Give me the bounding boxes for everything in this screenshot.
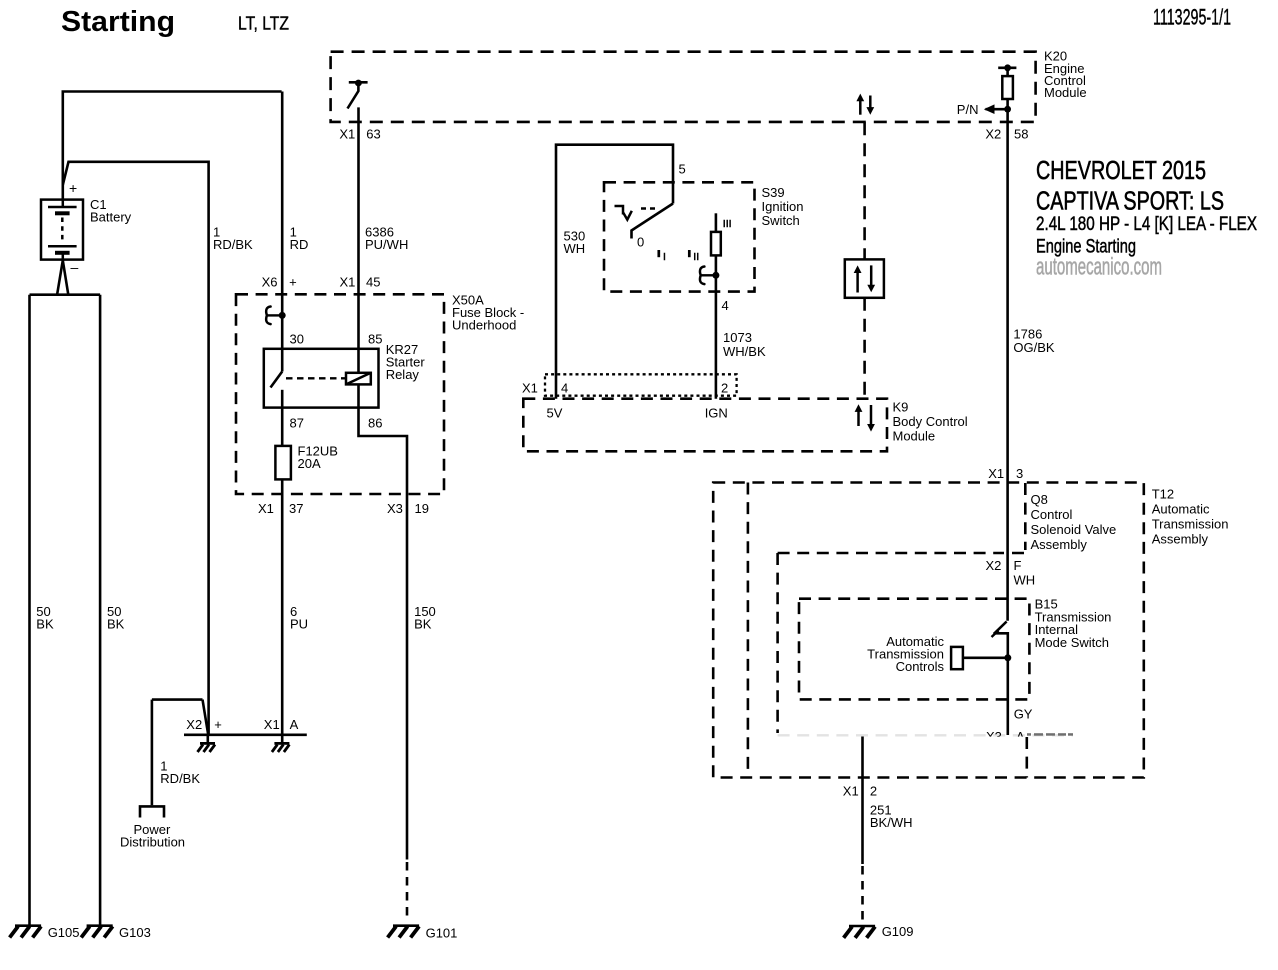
- wire 1 RD/BK branch to power distribution: [152, 698, 203, 701]
- wire ground bus bar: [30, 293, 101, 296]
- svg-text:Battery: Battery: [90, 210, 132, 225]
- white patch over erased area: [940, 737, 1105, 774]
- svg-text:P/N: P/N: [957, 102, 979, 117]
- ground G109: [844, 926, 876, 938]
- wire X2/X1 ground bar: [184, 733, 307, 736]
- wire mode switch jog to node: [994, 633, 1008, 735]
- svg-text:Mode Switch: Mode Switch: [1035, 635, 1109, 650]
- svg-text:G105: G105: [48, 925, 80, 940]
- K20 internal switch bar: [349, 81, 368, 84]
- svg-text:K9: K9: [893, 400, 909, 415]
- wire 6386 PU/WH K20 X1-63 to relay coil: [357, 107, 360, 372]
- svg-text:automecanico.com: automecanico.com: [1036, 253, 1162, 280]
- ground G103: [81, 926, 113, 938]
- svg-text:1073: 1073: [723, 330, 752, 345]
- svg-text:Assembly: Assembly: [1152, 532, 1209, 547]
- svg-text:X2: X2: [986, 558, 1002, 573]
- wire ATC to node: [963, 656, 1005, 659]
- svg-text:–: –: [71, 259, 79, 275]
- chassis ground at X1 A: [272, 735, 290, 752]
- wire ignition resistor top stub: [715, 213, 718, 232]
- ignition position tick I: [657, 250, 660, 257]
- svg-text:Underhood: Underhood: [452, 318, 516, 333]
- svg-text:1113295-1/1: 1113295-1/1: [1153, 5, 1231, 30]
- ground G105: [10, 926, 41, 938]
- svg-text:Relay: Relay: [386, 367, 420, 382]
- T12 Automatic Transmission Assembly box: [713, 483, 1144, 778]
- ignition position tick II: [688, 250, 691, 257]
- svg-text:X1: X1: [843, 784, 859, 799]
- P/N arrowhead: [984, 104, 995, 114]
- wire power distribution drop: [151, 700, 154, 806]
- relay KR27 coil symbol: [346, 373, 371, 385]
- svg-text:WH/BK: WH/BK: [723, 344, 766, 359]
- svg-text:G101: G101: [426, 926, 458, 941]
- svg-text:+: +: [289, 275, 297, 290]
- svg-text:G109: G109: [882, 924, 914, 939]
- svg-text:RD/BK: RD/BK: [213, 237, 253, 252]
- serial data arrows in K20: [856, 94, 874, 115]
- svg-text:RD/BK: RD/BK: [160, 771, 200, 786]
- ground G101: [388, 926, 420, 938]
- svg-text:CHEVROLET 2015: CHEVROLET 2015: [1036, 155, 1206, 185]
- svg-text:BK: BK: [107, 617, 125, 632]
- svg-text:+: +: [69, 180, 77, 196]
- P/N arrow line: [986, 108, 1008, 111]
- svg-text:Solenoid Valve: Solenoid Valve: [1031, 522, 1117, 537]
- svg-text:F: F: [1014, 558, 1022, 573]
- mode switch blade tick: [992, 631, 999, 638]
- svg-text:A: A: [290, 717, 299, 732]
- svg-text:II: II: [693, 251, 699, 263]
- svg-text:3: 3: [1016, 466, 1023, 481]
- svg-text:2.4L 180 HP - L4 [K] LEA - F: 2.4L 180 HP - L4 [K] LEA - FLEX: [1036, 213, 1257, 235]
- svg-text:T12: T12: [1152, 487, 1174, 502]
- svg-text:Starting: Starting: [61, 6, 175, 38]
- svg-text:19: 19: [415, 501, 429, 516]
- svg-text:2: 2: [721, 381, 728, 396]
- svg-text:30: 30: [290, 332, 304, 347]
- svg-text:X1: X1: [340, 275, 356, 290]
- K20 resistor top bar: [998, 67, 1016, 70]
- wire 50 BK to G103: [99, 295, 102, 925]
- wire 150 BK relay 86 to G101: [359, 384, 408, 859]
- wire battery negative V left leg: [57, 260, 63, 294]
- svg-text:III: III: [723, 218, 732, 230]
- svg-text:Automatic: Automatic: [1152, 502, 1210, 517]
- svg-text:Body Control: Body Control: [893, 414, 968, 429]
- svg-text:Distribution: Distribution: [120, 835, 185, 850]
- svg-text:+: +: [214, 717, 222, 732]
- K20 internal switch stub and blade: [348, 84, 359, 109]
- wire 150 BK dashed section: [406, 862, 409, 921]
- wire serial data arrows box to K9 (dashed): [863, 298, 866, 399]
- svg-text:Controls: Controls: [896, 659, 945, 674]
- Q8 assembly left edge: [747, 483, 750, 778]
- svg-text:X1: X1: [522, 381, 538, 396]
- serial data gateway box with arrows: [845, 259, 884, 297]
- svg-text:Ignition: Ignition: [762, 199, 804, 214]
- relay KR27 switch blade: [271, 372, 283, 388]
- svg-text:BK: BK: [414, 617, 432, 632]
- S39 rest contact symbol: [615, 206, 632, 220]
- relay KR27 actuation dashed link: [286, 377, 345, 379]
- connector hook at X6 fuse block: [266, 307, 270, 325]
- svg-text:Module: Module: [893, 429, 936, 444]
- svg-text:X1: X1: [339, 127, 355, 142]
- svg-text:WH: WH: [1014, 573, 1036, 588]
- B15 outer box left edge: [776, 553, 779, 733]
- svg-text:S39: S39: [762, 185, 785, 200]
- wire 1 RD/BK diagonal into X2 pin: [203, 700, 209, 735]
- K20 resistor top stub: [1006, 68, 1009, 76]
- svg-text:85: 85: [368, 332, 382, 347]
- svg-text:X1: X1: [258, 501, 274, 516]
- Q8 assembly right edge upper segment: [1024, 483, 1027, 550]
- fuse F12UB: [275, 446, 291, 480]
- svg-text:X1: X1: [988, 466, 1004, 481]
- wire serial data K20 to arrows box (dashed): [863, 122, 866, 259]
- fuse block X50A box: [236, 294, 444, 494]
- junction node B15: [1004, 654, 1011, 661]
- svg-text:Switch: Switch: [762, 213, 800, 228]
- svg-text:CAPTIVA SPORT: LS: CAPTIVA SPORT: LS: [1036, 186, 1224, 216]
- svg-text:2: 2: [870, 784, 877, 799]
- svg-text:X2: X2: [186, 717, 202, 732]
- B15 outer box top edge: [778, 552, 1026, 555]
- wire battery positive to top bus: [63, 92, 282, 200]
- wire 1786 OG/BK K20 X2-58 to mode switch: [1006, 99, 1009, 621]
- K9 Body Control Module box: [523, 399, 887, 452]
- svg-text:5: 5: [679, 162, 686, 177]
- resistor in S39: [711, 232, 721, 256]
- svg-text:58: 58: [1014, 127, 1028, 142]
- svg-text:OG/BK: OG/BK: [1013, 340, 1055, 355]
- svg-text:Transmission: Transmission: [1152, 517, 1229, 532]
- serial data arrows in K9: [855, 404, 875, 431]
- svg-text:Assembly: Assembly: [1031, 537, 1088, 552]
- svg-text:I: I: [663, 251, 666, 263]
- svg-text:LT, LTZ: LT, LTZ: [238, 13, 289, 34]
- K20 Engine Control Module box: [331, 52, 1036, 122]
- wire 530 WH ignition 5 to K9 5V: [556, 145, 673, 399]
- svg-text:86: 86: [368, 416, 382, 431]
- svg-text:4: 4: [561, 381, 568, 396]
- svg-text:Module: Module: [1044, 85, 1087, 100]
- svg-text:X2: X2: [985, 127, 1001, 142]
- B15 outer box bottom edge (erased remnant): [778, 734, 1073, 736]
- erased dash remnants: [1027, 733, 1073, 736]
- svg-text:63: 63: [366, 127, 380, 142]
- wire relay lower contact to fuse: [281, 390, 284, 446]
- resistor in K20: [1002, 76, 1013, 99]
- Q8 assembly right edge lower segment: [1026, 737, 1029, 778]
- mode switch blade B15: [994, 622, 1007, 634]
- svg-text:WH: WH: [564, 241, 586, 256]
- automatic transmission controls block: [951, 647, 963, 669]
- svg-text:X6: X6: [262, 275, 278, 290]
- svg-text:G103: G103: [119, 925, 151, 940]
- svg-text:4: 4: [722, 298, 729, 313]
- connector hook in S39: [700, 267, 704, 285]
- wire 1073 WH/BK resistor to K9 IGN: [715, 255, 718, 398]
- svg-text:BK/WH: BK/WH: [870, 815, 913, 830]
- svg-text:37: 37: [289, 501, 303, 516]
- junction node K20 resistor top: [1004, 64, 1011, 71]
- ignition switch blade: [632, 204, 674, 239]
- wire 6 PU fuse to X2 bar: [281, 479, 284, 734]
- junction node P/N: [1004, 106, 1011, 113]
- svg-text:0: 0: [637, 235, 644, 250]
- svg-text:X1: X1: [264, 717, 280, 732]
- wire 50 BK to G105: [28, 295, 31, 925]
- svg-text:IGN: IGN: [705, 406, 728, 421]
- svg-text:X3: X3: [387, 501, 403, 516]
- svg-text:45: 45: [366, 275, 380, 290]
- relay KR27 box: [264, 349, 379, 408]
- svg-text:GY: GY: [1014, 707, 1033, 722]
- ignition switch S39 box: [604, 182, 755, 291]
- svg-text:20A: 20A: [298, 456, 321, 471]
- partially erased pin text X3 A: [986, 729, 1025, 744]
- svg-text:PU/WH: PU/WH: [365, 237, 408, 252]
- B15 Transmission Internal Mode Switch box: [799, 599, 1029, 700]
- svg-text:Q8: Q8: [1031, 492, 1048, 507]
- chassis ground at X2 +: [198, 735, 216, 752]
- svg-text:RD: RD: [290, 237, 309, 252]
- junction node at X6: [279, 312, 286, 319]
- svg-text:87: 87: [290, 416, 304, 431]
- junction node K20 switch: [355, 80, 362, 87]
- svg-text:BK: BK: [36, 617, 54, 632]
- svg-text:5V: 5V: [547, 406, 563, 421]
- wire 1 RD/BK branch from battery top: [63, 162, 209, 735]
- wire 251 BK/WH to G109: [861, 735, 864, 864]
- wire 251 BK/WH dashed section: [861, 866, 864, 925]
- svg-text:PU: PU: [290, 617, 308, 632]
- wire 1 RD vertical: [281, 92, 284, 372]
- svg-text:Control: Control: [1031, 507, 1073, 522]
- junction node in S39: [712, 272, 719, 279]
- K9 connector X1 dotted box: [545, 374, 737, 395]
- power distribution staple symbol: [140, 806, 164, 817]
- S39 rest contact dashed link: [641, 207, 657, 209]
- wire battery negative V right leg: [63, 260, 69, 294]
- battery C1: [41, 200, 83, 261]
